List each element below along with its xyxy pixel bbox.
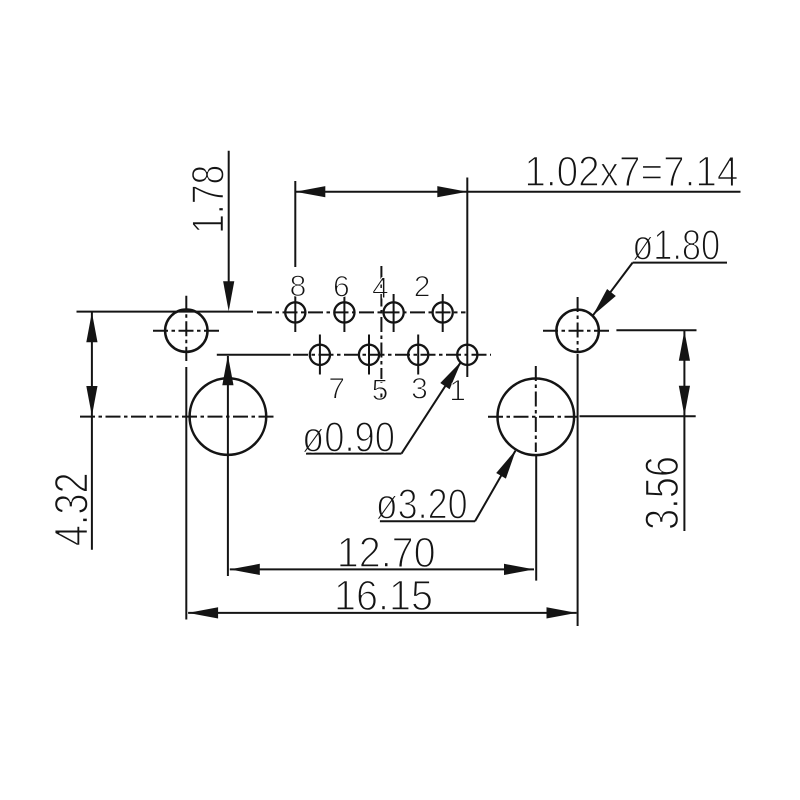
svg-text:4.32: 4.32: [44, 472, 97, 546]
svg-text:3: 3: [411, 373, 428, 406]
svg-text:16.15: 16.15: [334, 572, 433, 620]
svg-text:2: 2: [414, 271, 431, 304]
svg-text:3.56: 3.56: [635, 456, 688, 530]
svg-text:ø1.80: ø1.80: [632, 223, 720, 270]
svg-text:7: 7: [328, 373, 345, 406]
svg-text:ø3.20: ø3.20: [376, 482, 468, 529]
svg-text:1.02x7=7.14: 1.02x7=7.14: [524, 149, 738, 196]
svg-text:5: 5: [372, 374, 389, 407]
svg-text:8: 8: [290, 270, 307, 303]
svg-text:6: 6: [333, 271, 350, 304]
svg-text:ø0.90: ø0.90: [302, 415, 395, 462]
svg-text:1: 1: [449, 375, 466, 408]
svg-text:4: 4: [372, 272, 389, 305]
svg-text:1.78: 1.78: [183, 165, 234, 234]
svg-text:12.70: 12.70: [337, 529, 436, 577]
